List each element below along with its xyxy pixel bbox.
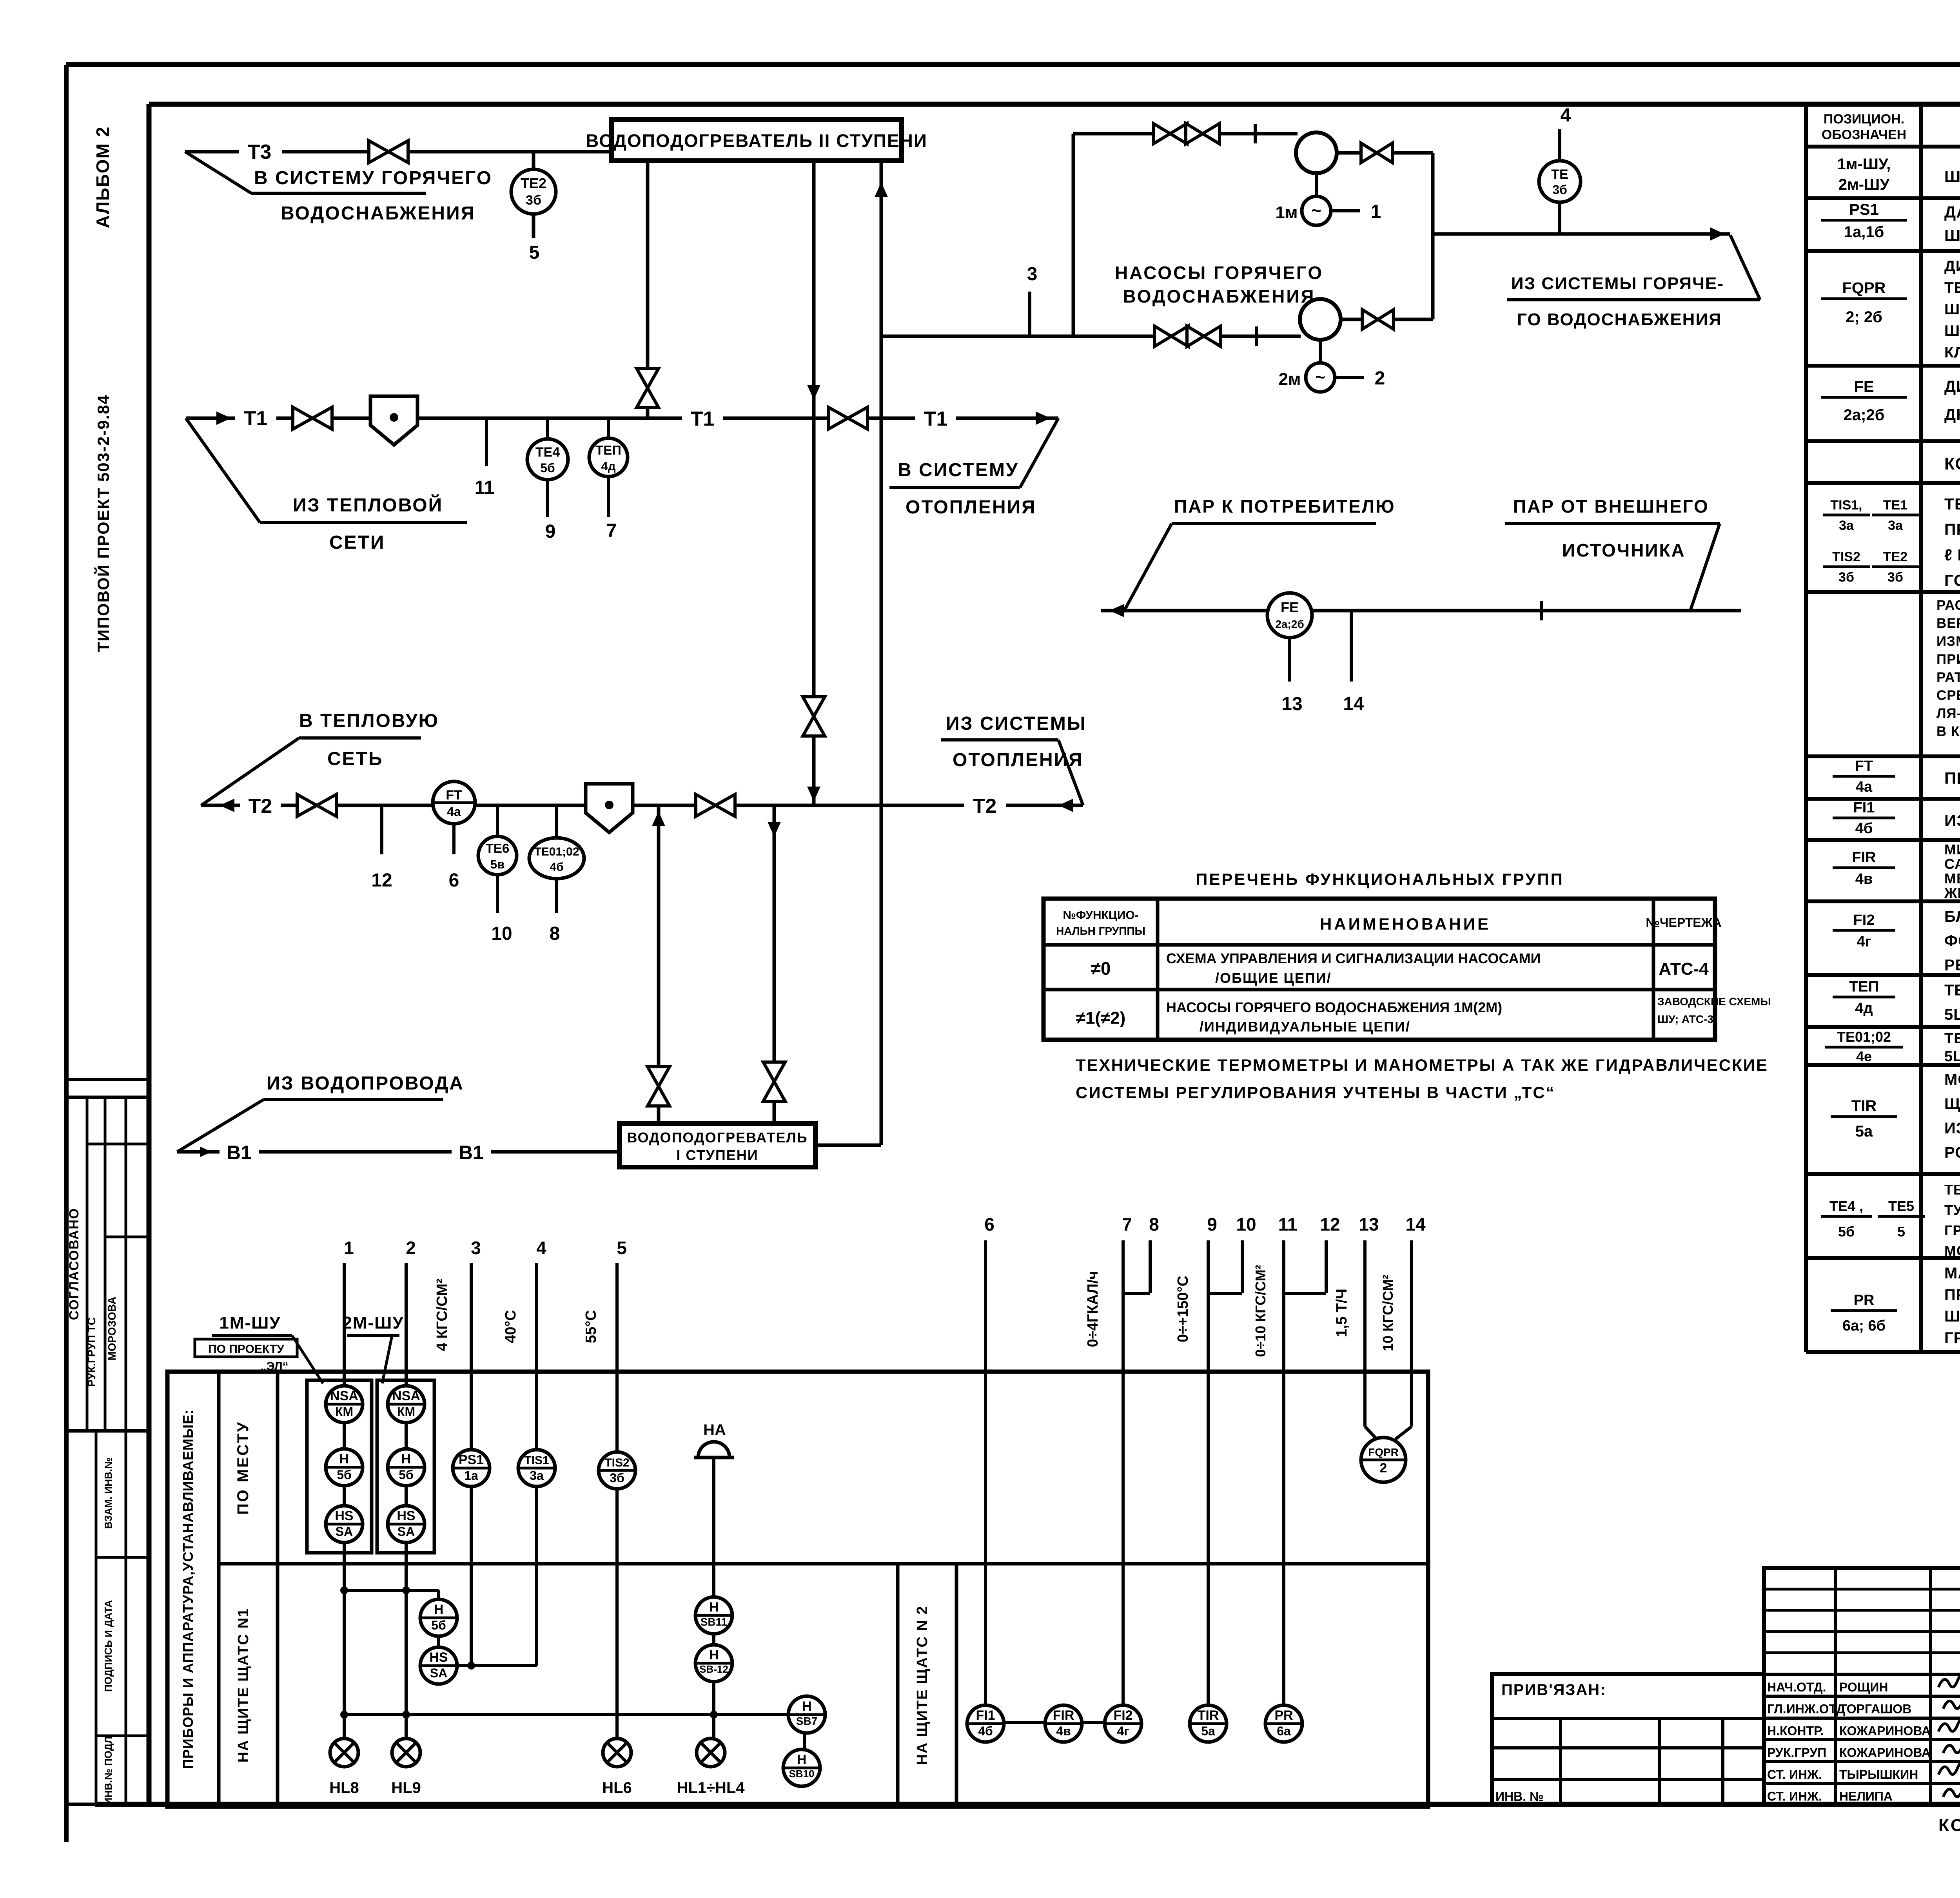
svg-text:ВОДОСНАБЖЕНИЯ: ВОДОСНАБЖЕНИЯ [281, 203, 475, 224]
svg-text:2м: 2м [1278, 370, 1301, 389]
svg-text:Н: Н [339, 1452, 349, 1467]
svg-text:ПАР К ПОТРЕБИТЕЛЮ: ПАР К ПОТРЕБИТЕЛЮ [1174, 496, 1396, 517]
instrument H 5b 1 [326, 1449, 363, 1486]
svg-text:В СИСТЕМУ: В СИСТЕМУ [898, 460, 1019, 480]
svg-text:4е: 4е [1856, 1048, 1872, 1064]
svg-text:9: 9 [545, 521, 556, 542]
pipe T1 [186, 417, 1058, 420]
svg-text:№ЧЕРТЕЖА: №ЧЕРТЕЖА [1646, 915, 1721, 930]
instrument H Sb lower [420, 1599, 457, 1636]
tap 3 [1028, 292, 1031, 336]
svg-text:ТЕ2: ТЕ2 [521, 175, 546, 191]
svg-text:HL6: HL6 [602, 1779, 632, 1796]
svg-text:1: 1 [1371, 201, 1381, 222]
svg-text:FI2: FI2 [1853, 912, 1875, 928]
svg-text:SВ7: SВ7 [796, 1715, 817, 1727]
svg-text:ТЕ4: ТЕ4 [535, 445, 560, 460]
wire 1 to NSA box [343, 1263, 346, 1738]
callout to hot water system [185, 152, 251, 193]
svg-text:5в: 5в [490, 857, 505, 871]
svg-text:ПЕРЕЧЕНЬ ФУНКЦИОНАЛЬНЫХ ГРУПП: ПЕРЕЧЕНЬ ФУНКЦИОНАЛЬНЫХ ГРУПП [1196, 870, 1564, 888]
T1 label mid [682, 404, 723, 432]
instrument TE01;02 4b [555, 805, 558, 913]
svg-text:0÷4ГКАЛ/ч: 0÷4ГКАЛ/ч [1085, 1271, 1101, 1347]
riser from exchanger I up to exchanger II [880, 161, 883, 1145]
wire SB12 down to lamp [712, 1682, 715, 1738]
svg-text:ПО ПРОЕКТУ: ПО ПРОЕКТУ [208, 1343, 284, 1356]
svg-text:FI2: FI2 [1113, 1708, 1132, 1723]
wire 6 to FI1 [984, 1240, 987, 1707]
svg-text:КОПИРОВАЛ: МАЙОРОВА: КОПИРОВАЛ: МАЙОРОВА [1938, 1815, 1960, 1835]
svg-text:ℓ КАПИЛ.=25М, ℓ ПОГР.=160 ММ: ℓ КАПИЛ.=25М, ℓ ПОГР.=160 ММ [1944, 546, 1960, 564]
instrument FIR 4v [1045, 1705, 1082, 1742]
svg-text:ШКАЛА 0÷10 КГС/СМ². ВРЕМЯ ОДНО: ШКАЛА 0÷10 КГС/СМ². ВРЕМЯ ОДНОГО ОБОРОТА… [1944, 1308, 1960, 1325]
long bus wire [344, 1713, 791, 1716]
svg-text:ТЕ01;02: ТЕ01;02 [1837, 1029, 1891, 1045]
svg-text:КОЖАРИНОВА: КОЖАРИНОВА [1839, 1746, 1931, 1760]
svg-text:I СТУПЕНИ: I СТУПЕНИ [676, 1147, 758, 1163]
svg-text:PS1: PS1 [459, 1452, 484, 1467]
svg-text:ПРИВОДОМ МТ2С-711. ГОСТ 520.3: ПРИВОДОМ МТ2С-711. ГОСТ 520.31- 73 [1944, 1286, 1960, 1303]
specification table grid [1806, 102, 1960, 106]
svg-text:ПАР ОТ ВНЕШНЕГО: ПАР ОТ ВНЕШНЕГО [1513, 496, 1709, 517]
instrument TE6 5v [496, 805, 499, 913]
svg-text:Т1: Т1 [244, 407, 268, 430]
svg-text:СОГЛАСОВАНО: СОГЛАСОВАНО [67, 1208, 82, 1320]
svg-text:ТЕ1: ТЕ1 [1883, 498, 1907, 513]
svg-text:6: 6 [449, 870, 459, 891]
svg-text:0÷+150°С: 0÷+150°С [1175, 1276, 1191, 1342]
pipe T2 [201, 804, 1083, 807]
callout to heating system [1020, 418, 1058, 488]
lamp HL9 [392, 1738, 420, 1767]
functional groups table grid [1044, 899, 1715, 1040]
riser from exchanger II down to T2 [812, 161, 816, 805]
svg-text:НАИМЕНОВАНИЕ: НАИМЕНОВАНИЕ [1320, 915, 1491, 933]
svg-text:ИЗ СИСТЕМЫ: ИЗ СИСТЕМЫ [946, 713, 1087, 734]
left stamp box 1 [66, 1097, 149, 1431]
svg-text:НАЧ.ОТД.: НАЧ.ОТД. [1767, 1680, 1826, 1694]
svg-text:FE: FE [1281, 599, 1299, 615]
svg-text:ЗАВОДСКИЕ СХЕМЫ: ЗАВОДСКИЕ СХЕМЫ [1657, 995, 1771, 1008]
svg-text:ТЕРМОМЕТР СОПРОТИВЛЕНИЯ ТСП-50: ТЕРМОМЕТР СОПРОТИВЛЕНИЯ ТСП-5071 [1944, 982, 1960, 999]
svg-text:ТЕП: ТЕП [1849, 979, 1879, 995]
svg-text:НА ЩИТЕ ЩАТС N 2: НА ЩИТЕ ЩАТС N 2 [914, 1605, 931, 1765]
wire 11 to PR [1282, 1240, 1285, 1707]
svg-text:СЕТЬ: СЕТЬ [327, 749, 383, 769]
pump 1 circle [1296, 132, 1337, 173]
svg-text:„ЭЛ“: „ЭЛ“ [260, 1360, 288, 1373]
instrument FQPR 2 [1361, 1438, 1406, 1482]
svg-text:HL1÷HL4: HL1÷HL4 [677, 1779, 745, 1796]
svg-text:ПРИ Dу=100 ММ. ИЗМЕРЯЕМАЯ СРЕД: ПРИ Dу=100 ММ. ИЗМЕРЯЕМАЯ СРЕДА-ГОРЯЧАЯ … [1936, 652, 1960, 667]
svg-text:ГЛ.ИНЖ.ОТД: ГЛ.ИНЖ.ОТД [1767, 1702, 1845, 1716]
svg-text:2: 2 [1375, 368, 1385, 389]
svg-text:ТIR: ТIR [1198, 1708, 1219, 1723]
svg-text:ОТОПЛЕНИЯ: ОТОПЛЕНИЯ [953, 750, 1083, 770]
svg-text:4 КГС/СМ²: 4 КГС/СМ² [434, 1278, 450, 1351]
instrument TIR 5a [1190, 1705, 1227, 1742]
svg-text:5: 5 [617, 1238, 627, 1258]
svg-text:ИЗ СИСТЕМЫ ГОРЯЧЕ-: ИЗ СИСТЕМЫ ГОРЯЧЕ- [1511, 274, 1724, 293]
svg-text:ФОРМАЦИИ БОС.4Ф2.729.005. ПРЕ: ФОРМАЦИИ БОС.4Ф2.729.005. ПРЕДЕЛЫ ИЗМЕ- [1944, 932, 1960, 950]
svg-text:3а: 3а [1888, 518, 1903, 533]
svg-text:В ТЕПЛОВУЮ: В ТЕПЛОВУЮ [299, 711, 439, 731]
instrument H SB7 [788, 1696, 825, 1733]
svg-text:6а: 6а [1277, 1724, 1291, 1738]
tap 11 on T1 [485, 418, 488, 466]
svg-text:ПРЕОБРАЗОВАТЕЛЬ РАСХОДА ПРИ-10: ПРЕОБРАЗОВАТЕЛЬ РАСХОДА ПРИ-100 [1944, 769, 1960, 787]
svg-text:КОНДЕНСАЦИОННЫЙ СОСУД ГОСТ 143: КОНДЕНСАЦИОННЫЙ СОСУД ГОСТ 14318-73 [1944, 454, 1960, 473]
hot water outlet pipe [1433, 232, 1730, 236]
svg-text:10: 10 [1236, 1214, 1256, 1235]
svg-text:5б: 5б [1838, 1224, 1855, 1240]
svg-text:≠1(≠2): ≠1(≠2) [1076, 1008, 1126, 1028]
svg-text:ШУ; АТС-3: ШУ; АТС-3 [1657, 1013, 1713, 1025]
svg-text:~: ~ [1315, 368, 1325, 387]
svg-text:13: 13 [1359, 1214, 1379, 1235]
svg-text:1м-ШУ,: 1м-ШУ, [1837, 156, 1891, 173]
svg-text:2а;2б: 2а;2б [1275, 618, 1304, 630]
tap 12 on T2 [380, 805, 383, 854]
instrument FI2 4g [1105, 1705, 1142, 1742]
T1 label right [915, 404, 956, 432]
svg-text:Н: Н [709, 1648, 719, 1662]
svg-text:НАСОСЫ ГОРЯЧЕГО ВОДОСНАБЖЕНИЯ: НАСОСЫ ГОРЯЧЕГО ВОДОСНАБЖЕНИЯ 1М(2М) [1166, 999, 1502, 1015]
svg-text:БЛОК ОБРАБОТКИ СИГНАЛОВ И ОТОБ: БЛОК ОБРАБОТКИ СИГНАЛОВ И ОТОБРАЖЕНИЯ ИН… [1944, 908, 1960, 925]
svg-text:3б: 3б [610, 1471, 624, 1485]
svg-text:ГО ВОДОСНАБЖЕНИЯ: ГО ВОДОСНАБЖЕНИЯ [1517, 310, 1722, 329]
svg-text:FE: FE [1854, 378, 1874, 395]
svg-text:ПРЕДЕЛЫ ИЗМЕРЕНИЙ 0÷100°С: ПРЕДЕЛЫ ИЗМЕРЕНИЙ 0÷100°С [1944, 520, 1960, 538]
svg-text:ИЗМЕРЕНИЯ РАСХОДА-80 М³/Ч. ДИА: ИЗМЕРЕНИЯ РАСХОДА-80 М³/Ч. ДИАМЕТР УСЛОВ… [1936, 634, 1960, 649]
svg-text:8: 8 [1149, 1214, 1159, 1235]
wire 3 to PS1 [470, 1263, 473, 1666]
svg-text:55°С: 55°С [583, 1310, 599, 1343]
svg-text:СЕТИ: СЕТИ [329, 532, 385, 553]
instrument H SB11 [695, 1597, 732, 1634]
svg-text:Н: Н [434, 1602, 444, 1617]
svg-text:ТОРГАШОВ: ТОРГАШОВ [1839, 1702, 1911, 1716]
wire 8 jog [1149, 1240, 1152, 1293]
svg-text:5а: 5а [1201, 1724, 1215, 1738]
svg-text:5б: 5б [399, 1468, 414, 1482]
wire SB7-SB10 [803, 1733, 806, 1749]
svg-text:КМ: КМ [335, 1405, 353, 1419]
svg-text:Н: Н [709, 1600, 719, 1615]
svg-text:2; 2б: 2; 2б [1846, 308, 1882, 326]
pump 1 discharge valve [1337, 151, 1433, 155]
svg-text:14: 14 [1343, 694, 1364, 714]
instrument TE2 3b [532, 152, 535, 238]
svg-text:1а,1б: 1а,1б [1844, 223, 1884, 241]
wire 7 to FI2 [1122, 1240, 1125, 1707]
lamp HL6 [603, 1738, 631, 1767]
arrow up from exchanger I riser [652, 811, 665, 826]
svg-text:ТIR: ТIR [1851, 1097, 1877, 1115]
instrument H SB10 [783, 1749, 820, 1786]
wire 5 to TIS2 [615, 1263, 619, 1738]
svg-text:4б: 4б [1855, 820, 1873, 837]
svg-text:ВЗАМ. ИНВ.№: ВЗАМ. ИНВ.№ [102, 1457, 114, 1529]
svg-text:КМ: КМ [397, 1405, 415, 1419]
svg-text:4б: 4б [978, 1724, 993, 1738]
svg-text:НЕЛИПА: НЕЛИПА [1839, 1789, 1893, 1804]
valve on T2 left [297, 794, 317, 816]
svg-text:№ФУНКЦИО-: №ФУНКЦИО- [1063, 909, 1138, 922]
svg-text:ДИФМАНОМЕТР САМОПИШУЩИЙ С ИНТЕ: ДИФМАНОМЕТР САМОПИШУЩИЙ С ИНТЕГРАТОРОМ С… [1944, 257, 1960, 275]
svg-text:SA: SA [397, 1525, 415, 1539]
pump 2 circle [1300, 299, 1341, 340]
svg-text:ГРАММЫ- 24 ЧАСА.: ГРАММЫ- 24 ЧАСА. [1944, 1329, 1960, 1347]
svg-text:HS: HS [335, 1508, 353, 1523]
svg-text:12: 12 [1320, 1214, 1340, 1235]
svg-text:8: 8 [550, 923, 560, 944]
svg-text:FT: FT [1855, 758, 1873, 774]
svg-text:3б: 3б [1838, 570, 1854, 585]
svg-text:SA: SA [430, 1666, 447, 1680]
svg-text:FT: FT [446, 788, 462, 803]
svg-text:ИНВ. №: ИНВ. № [1495, 1789, 1544, 1804]
svg-text:SВ10: SВ10 [789, 1768, 814, 1780]
svg-text:В1: В1 [227, 1142, 252, 1164]
svg-text:В КОМПЛЕКТЕ: ПОЗ. 4а и 4б: В КОМПЛЕКТЕ: ПОЗ. 4а и 4б [1936, 724, 1960, 739]
svg-text:ШКАФ УПРАВЛЕНИЯ ЭЛЕКТРОДВИГАТЕ: ШКАФ УПРАВЛЕНИЯ ЭЛЕКТРОДВИГАТЕЛЕМ НАСОСА [1944, 168, 1960, 186]
svg-text:10: 10 [491, 923, 512, 944]
callout from hot water system [1730, 235, 1760, 300]
svg-text:1а: 1а [464, 1468, 478, 1483]
svg-text:4г: 4г [1857, 934, 1871, 950]
valve on T1 right [828, 407, 848, 429]
heat exchanger II box [612, 120, 902, 161]
riser T2 to exchanger I left with valve [657, 805, 661, 1124]
svg-text:5Ц 2 В21. 310-01; ТУ 25. 02.: 5Ц 2 В21. 310-01; ТУ 25. 02. 716-73 [1944, 1006, 1960, 1023]
svg-text:РУК.ГРУП: РУК.ГРУП [1767, 1746, 1826, 1760]
svg-text:НА ЩИТЕ ЩАТС N1: НА ЩИТЕ ЩАТС N1 [235, 1608, 252, 1763]
svg-text:6: 6 [984, 1214, 995, 1235]
pipe B1 [177, 1150, 619, 1154]
svg-text:5б: 5б [431, 1618, 446, 1632]
svg-text:ТIS1,: ТIS1, [1830, 498, 1862, 513]
svg-text:PS1: PS1 [1849, 201, 1879, 218]
wire 14 to FQPR [1410, 1240, 1413, 1427]
svg-text:11: 11 [1278, 1214, 1298, 1235]
svg-text:ПРИБОРЫ И АППАРАТУРА,УСТАНАВЛИ: ПРИБОРЫ И АППАРАТУРА,УСТАНАВЛИВАЕМЫЕ: [180, 1409, 196, 1769]
svg-text:3: 3 [1027, 264, 1038, 285]
instrument HS SA 1 [326, 1506, 363, 1543]
svg-text:Н: Н [802, 1699, 812, 1714]
svg-text:ЖЕНИЯ ДИАГРАММНОЙ ЛЕНТЫ 60ММ/Ч: ЖЕНИЯ ДИАГРАММНОЙ ЛЕНТЫ 60ММ/Ч [1944, 885, 1960, 901]
svg-text:1,5 Т/Ч: 1,5 Т/Ч [1334, 1289, 1350, 1337]
svg-text:ВЕРХНИЙ ПРЕДЕЛ СКОРОСТИ ПРОТОК: ВЕРХНИЙ ПРЕДЕЛ СКОРОСТИ ПРОТОКА-3,2М/СЕК… [1936, 615, 1960, 631]
svg-text:АЛЬБОМ 2: АЛЬБОМ 2 [93, 126, 113, 228]
svg-text:HS: HS [429, 1650, 448, 1665]
T2 label right [964, 792, 1006, 819]
svg-text:14: 14 [1405, 1214, 1426, 1235]
lamp HL8 [330, 1738, 358, 1767]
svg-text:НАЛЬН ГРУППЫ: НАЛЬН ГРУППЫ [1056, 925, 1145, 937]
svg-text:2М-ШУ: 2М-ШУ [342, 1313, 404, 1332]
svg-text:ТЕХНИЧЕСКИЕ ТЕРМОМЕТРЫ И МАНОМ: ТЕХНИЧЕСКИЕ ТЕРМОМЕТРЫ И МАНОМЕТРЫ А ТАК… [1076, 1056, 1768, 1074]
svg-text:3б: 3б [1552, 183, 1567, 197]
svg-text:3а: 3а [1839, 518, 1854, 533]
valve on T3 [185, 150, 612, 154]
svg-text:3б: 3б [1887, 570, 1903, 585]
svg-text:МЕРЕНИЙ 0÷5МА. ШКАЛА 0÷80 М³/Ч: МЕРЕНИЙ 0÷5МА. ШКАЛА 0÷80 М³/Ч. СКОРОСТЬ… [1944, 870, 1960, 886]
mud filter on T1 [370, 396, 417, 445]
svg-text:ТЕРМОМЕТР МАНОМЕТРИЧЕСКИЙ ТПГ-: ТЕРМОМЕТР МАНОМЕТРИЧЕСКИЙ ТПГ-СК [1944, 495, 1960, 513]
heat exchanger I box [619, 1124, 815, 1167]
svg-text:ДАТЧИК-РЕЛЕ ДАВЛЕНИЯ РД-1-ОМ5-: ДАТЧИК-РЕЛЕ ДАВЛЕНИЯ РД-1-ОМ5-01 [1944, 203, 1960, 221]
instrument PR 6a [1265, 1705, 1302, 1742]
instrument NSA KM 2 [388, 1386, 425, 1423]
svg-text:9: 9 [1207, 1214, 1217, 1235]
left margin column lines [66, 1078, 149, 1081]
pump 2 motor 2m [1319, 340, 1322, 363]
instrument FT 4a [433, 781, 475, 824]
svg-text:2а;2б: 2а;2б [1844, 406, 1885, 424]
svg-text:РЕНИЙ 0÷5МА. ШКАЛА 0÷4,0 ГКАЛ: РЕНИЙ 0÷5МА. ШКАЛА 0÷4,0 ГКАЛ/Ч. [1944, 956, 1960, 974]
instrument HS SA 2 [388, 1506, 425, 1543]
callout steam to consumer [1124, 524, 1172, 611]
pump suction bottom pipe [881, 335, 1301, 338]
svg-text:PR: PR [1854, 1292, 1875, 1309]
wire 9 to TIR [1207, 1240, 1210, 1707]
svg-text:НА: НА [703, 1421, 726, 1439]
schit N2 label column [896, 1564, 900, 1807]
svg-text:1м: 1м [1275, 203, 1298, 222]
callout to heat network [201, 738, 299, 805]
svg-text:5а: 5а [1855, 1123, 1873, 1140]
svg-text:ТЕ: ТЕ [1551, 167, 1568, 182]
svg-text:NSA: NSA [392, 1389, 420, 1403]
panel row divider [219, 1562, 1428, 1566]
svg-text:ГРАДУИРОВКА 21. УСЛОВНОЕ ДАВЛЕ: ГРАДУИРОВКА 21. УСЛОВНОЕ ДАВЛЕНИЕ 64 КГС… [1944, 1222, 1960, 1238]
svg-text:/ИНДИВИДУАЛЬНЫЕ ЦЕПИ/: /ИНДИВИДУАЛЬНЫЕ ЦЕПИ/ [1200, 1019, 1410, 1035]
svg-text:РУК.ГРУП ТС: РУК.ГРУП ТС [85, 1317, 98, 1387]
privyazan box [1492, 1674, 1764, 1805]
riser T2 to exchanger I right with valve [773, 805, 776, 1124]
pump suction top pipe [1073, 132, 1298, 136]
svg-text:5: 5 [529, 242, 540, 263]
svg-text:ТУ 25. 02.220.716-73.С НЕПОДВИ: ТУ 25. 02.220.716-73.С НЕПОДВИЖНЫМ ШТУЦЕ… [1944, 1202, 1960, 1218]
left stamp box 2 [66, 1431, 149, 1804]
svg-text:В1: В1 [459, 1142, 484, 1164]
svg-text:ИЗ ВОДОПРОВОДА: ИЗ ВОДОПРОВОДА [267, 1073, 464, 1094]
svg-text:10 КГС/СМ²: 10 КГС/СМ² [1380, 1274, 1396, 1351]
instrument H SB12 [695, 1645, 732, 1682]
svg-text:SВ-12: SВ-12 [699, 1663, 728, 1675]
svg-text:FI1: FI1 [976, 1708, 995, 1723]
svg-text:0÷10 КГС/СМ²: 0÷10 КГС/СМ² [1252, 1265, 1269, 1357]
svg-text:Н: Н [797, 1752, 807, 1767]
svg-text:ИЗМЕРИТЕЛЬНОЕ УСТРОЙСТВО КУ-51: ИЗМЕРИТЕЛЬНОЕ УСТРОЙСТВО КУ-51 [1944, 811, 1960, 830]
riser from exchanger II to T1 with valve [646, 161, 650, 418]
svg-text:5Ц 2. 821. 310-07; ТУ 25. 02.: 5Ц 2. 821. 310-07; ТУ 25. 02.220.716-73 [1944, 1048, 1960, 1065]
svg-text:NSA: NSA [330, 1389, 358, 1403]
svg-text:Н.КОНТР.: Н.КОНТР. [1767, 1724, 1824, 1738]
wire HA to SB11 [712, 1457, 715, 1600]
svg-text:ЩИЙ КСМ-2-021. ГОСТ 7154-78.: ЩИЙ КСМ-2-021. ГОСТ 7154-78. ПРЕДЕЛЫ [1944, 1095, 1960, 1113]
wire FI1-FIR-FI2 [1004, 1721, 1105, 1724]
svg-text:ТIS2: ТIS2 [1832, 549, 1860, 564]
svg-text:40°С: 40°С [503, 1310, 519, 1343]
svg-text:4в: 4в [1855, 871, 1873, 887]
local cabinet box 2M [377, 1380, 434, 1553]
svg-text:НАСОСЫ ГОРЯЧЕГО: НАСОСЫ ГОРЯЧЕГО [1115, 263, 1323, 283]
wire jumper to H SB [344, 1589, 439, 1592]
svg-text:5: 5 [1897, 1224, 1905, 1240]
instrument FE 2a;2b on steam pipe [1267, 593, 1312, 638]
svg-text:FIR: FIR [1053, 1708, 1074, 1723]
wire HS SA to TIS1 [457, 1664, 537, 1667]
callout steam from external source [1690, 524, 1720, 611]
svg-text:ПОДПИСЬ И ДАТА: ПОДПИСЬ И ДАТА [102, 1600, 114, 1692]
svg-text:ВОДОПОДОГРЕВАТЕЛЬ II СТУПЕНИ: ВОДОПОДОГРЕВАТЕЛЬ II СТУПЕНИ [586, 131, 927, 151]
svg-text:4: 4 [536, 1238, 546, 1258]
svg-text:ДИАФРАГМА КАМЕРНАЯ С ОДНОЙ ПАР: ДИАФРАГМА КАМЕРНАЯ С ОДНОЙ ПАРОЙ ОТБОРОВ [1944, 377, 1960, 395]
pump 1 motor 1m [1315, 173, 1318, 197]
svg-text:4а: 4а [447, 805, 461, 819]
svg-text:6а; 6б: 6а; 6б [1842, 1318, 1886, 1334]
svg-text:ВОДОСНАБЖЕНИЯ: ВОДОСНАБЖЕНИЯ [1123, 286, 1316, 306]
svg-text:/ОБЩИЕ ЦЕПИ/: /ОБЩИЕ ЦЕПИ/ [1215, 970, 1332, 986]
svg-text:МИЛЛИАМПЕРМЕТР АВТОМАТИЧЕСКИЙ: МИЛЛИАМПЕРМЕТР АВТОМАТИЧЕСКИЙ ПОКАЗЫВАЮЩ… [1944, 841, 1960, 857]
instrument PS1 1a [453, 1450, 490, 1486]
pump 2 discharge valve [1341, 318, 1433, 321]
svg-text:Н: Н [401, 1452, 411, 1467]
svg-text:12: 12 [371, 870, 392, 891]
instrument TE 3b on outlet [1558, 129, 1561, 234]
svg-text:11: 11 [475, 477, 495, 498]
svg-text:Т1: Т1 [691, 408, 715, 430]
svg-text:2: 2 [1380, 1461, 1387, 1476]
svg-text:4в: 4в [1056, 1724, 1071, 1738]
lamp HL1-HL4 [697, 1738, 725, 1767]
wire 4 to TIS1 [535, 1263, 538, 1454]
svg-text:3: 3 [471, 1238, 481, 1258]
svg-text:ПРИВ'ЯЗАН:: ПРИВ'ЯЗАН: [1501, 1681, 1606, 1699]
mud filter on T2 [586, 784, 633, 832]
svg-text:1М-ШУ: 1М-ШУ [219, 1313, 281, 1332]
svg-text:FI1: FI1 [1853, 799, 1875, 816]
svg-text:АТС-4: АТС-4 [1659, 959, 1709, 979]
svg-text:2м-ШУ: 2м-ШУ [1838, 176, 1890, 193]
svg-text:Т2: Т2 [249, 795, 272, 818]
svg-text:13: 13 [1281, 694, 1302, 714]
svg-text:ТЕ5: ТЕ5 [1888, 1198, 1914, 1214]
instrument FI1 4b [967, 1705, 1004, 1742]
svg-text:СТ. ИНЖ.: СТ. ИНЖ. [1767, 1767, 1822, 1782]
svg-text:ТIS1: ТIS1 [524, 1454, 549, 1467]
instrument TE4 5b [546, 418, 549, 517]
svg-text:3б: 3б [526, 193, 541, 208]
wire 2 to NSA box [405, 1263, 408, 1738]
tap 14 on steam pipe [1350, 611, 1353, 682]
svg-text:В СИСТЕМУ ГОРЯЧЕГО: В СИСТЕМУ ГОРЯЧЕГО [254, 168, 492, 189]
svg-text:≠0: ≠0 [1091, 958, 1111, 979]
callout from heating system [1058, 740, 1083, 805]
svg-text:РОСТЬ ПРОДВИЖЕНИЯ ДИАГРАММНОЙ: РОСТЬ ПРОДВИЖЕНИЯ ДИАГРАММНОЙ ЛЕНТЫ 60 М… [1944, 1143, 1960, 1161]
svg-text:ИНВ.№ ПОДЛ: ИНВ.№ ПОДЛ [102, 1736, 114, 1805]
valve on T2 right [696, 794, 715, 816]
svg-text:РАСХОДОМЕР ЭЛЕКТРОМАГНИТНЫЙ ИР: РАСХОДОМЕР ЭЛЕКТРОМАГНИТНЫЙ ИР51,ТУ25.02… [1936, 597, 1960, 613]
svg-text:5б: 5б [337, 1468, 352, 1482]
svg-text:ШКАЛА РАСХОДА 0÷1,6 Т/Ч: ШКАЛА РАСХОДА 0÷1,6 Т/Ч [1944, 301, 1960, 318]
instrument TIS2 3b [599, 1452, 635, 1489]
callout from heat network [186, 418, 260, 522]
svg-text:ТЕП: ТЕП [595, 443, 621, 457]
